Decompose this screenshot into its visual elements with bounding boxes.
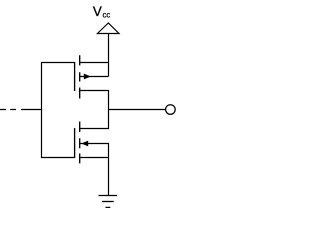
wire PMOS bulk stub [80,76,109,78]
transistor Q1 PMOS gate bar [74,62,76,91]
wire input dashed lead [0,109,42,111]
svg-text:V: V [93,4,102,19]
wire Vcc rail [108,34,110,77]
wire NMOS bulk stub to ground rail [80,144,109,196]
node output terminal circle [166,105,176,115]
transistor Q2 NMOS channel dashes [79,122,81,164]
wire output branch [109,109,166,111]
transistor Q2 NMOS gate bar [74,128,76,158]
power symbol Vcc triangle [97,23,119,34]
ground bar 2 [102,201,114,203]
transistor Q2 NMOS bulk arrow [81,141,88,147]
transistor Q1 PMOS channel dashes [79,55,81,98]
wire NMOS source stub [80,157,109,159]
wire PMOS source stub [80,62,109,64]
label Vcc [93,4,110,20]
svg-text:cc: cc [103,11,111,20]
wire PMOS drain to NMOS drain rail [80,91,109,129]
ground bar 3 [106,206,111,208]
transistor Q1 PMOS bulk arrow [84,74,91,80]
wire gate rail with branches [42,63,75,158]
ground bar 1 [99,195,118,197]
